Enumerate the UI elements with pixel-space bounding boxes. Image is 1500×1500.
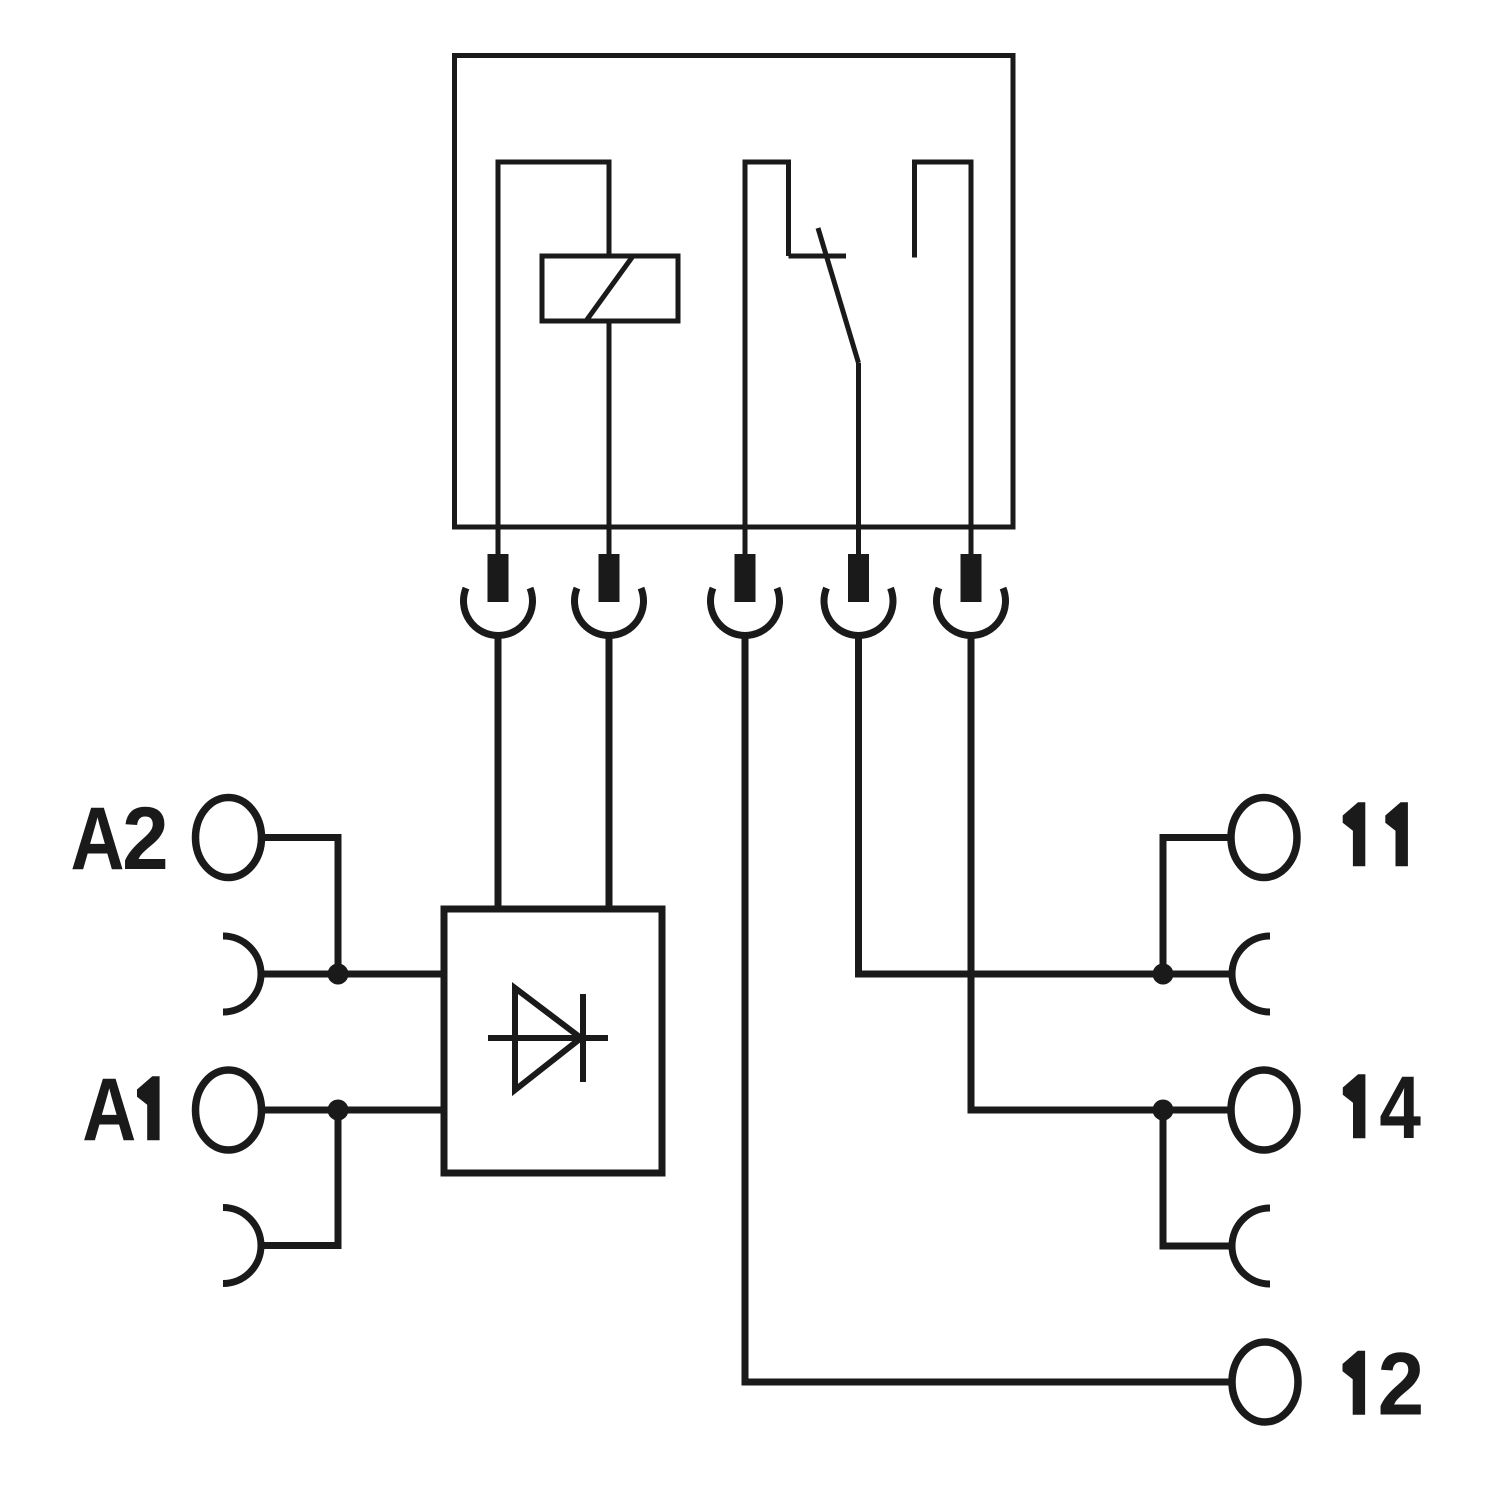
junction 11 (1153, 964, 1174, 985)
pin 2 stub (607, 527, 612, 556)
svg-text:A: A (82, 1061, 136, 1160)
pin 5 plug blade (961, 554, 982, 602)
wire pin5 to terminal 14 row (971, 634, 1231, 1110)
pin 3 plug blade (735, 554, 756, 602)
wire pin2 to suppressor box (606, 634, 613, 909)
diode V1 cathode bar (580, 994, 586, 1082)
pin 4 plug blade (848, 554, 869, 602)
suppressor box (444, 909, 662, 1173)
pin 2 plug blade (599, 554, 620, 602)
wire A1 junction to bridge arc (261, 1110, 338, 1246)
diode V1 triangle (515, 988, 581, 1090)
11 bridge socket arc (1232, 936, 1270, 1012)
junction A1 (328, 1100, 349, 1121)
wire pin3 to terminal 12 (745, 634, 1232, 1382)
terminal A1 circle (196, 1070, 262, 1150)
junction A2 (328, 964, 349, 985)
terminal A2 circle (196, 798, 262, 878)
pin 5 stub (969, 527, 974, 556)
wire A2 to junction (262, 838, 339, 975)
svg-text:A: A (71, 790, 125, 889)
pin 2 socket arc (575, 588, 644, 635)
A2 bridge socket arc (223, 936, 261, 1012)
label 12 (1343, 1351, 1366, 1415)
diode V1 line (488, 1035, 608, 1041)
14 bridge socket arc (1232, 1208, 1270, 1284)
wire 14 junction to bridge arc (1163, 1110, 1232, 1246)
terminal 14 circle (1231, 1070, 1297, 1150)
pin 3 socket arc (711, 588, 780, 635)
svg-text:2: 2 (1378, 1335, 1425, 1434)
terminal 11 circle (1231, 798, 1297, 878)
pin 1 stub (496, 527, 501, 556)
coil diagonal stroke (586, 256, 633, 321)
NC fixed contact bar (789, 254, 847, 259)
relay coil K1 (542, 256, 678, 321)
pin 5 socket arc (937, 588, 1006, 635)
label 14 (1343, 1074, 1366, 1138)
pin 3 stub (743, 527, 748, 556)
wire NO fixed contact branch (pin5) (915, 162, 972, 527)
pin 1 socket arc (463, 588, 532, 635)
terminal 12 circle (1232, 1342, 1298, 1422)
switch blade (movable contact) (818, 228, 859, 363)
junction 14 (1153, 1100, 1174, 1121)
wire pin4 to terminal 11 row (859, 634, 1233, 974)
wire coil bottom to pin2 (607, 321, 612, 527)
pin 1 plug blade (488, 554, 509, 602)
relay housing box (455, 56, 1014, 528)
wire NC fixed contact branch (pin3) (745, 162, 789, 527)
wire A1 to suppressor box (262, 1107, 445, 1114)
wire blade to pin4 (856, 363, 861, 527)
wire pin1 to suppressor box (495, 634, 502, 909)
wire terminal 11 to junction (1163, 838, 1231, 975)
svg-text:2: 2 (122, 790, 169, 889)
wire A2 arc to suppressor box (261, 971, 444, 978)
wire coil left branch (pin1 to coil) (498, 162, 609, 527)
svg-text:4: 4 (1379, 1059, 1421, 1158)
label 11 (1343, 802, 1366, 866)
A1 bridge socket arc (223, 1208, 261, 1284)
pin 4 socket arc (824, 588, 893, 635)
pin 4 stub (856, 527, 861, 556)
